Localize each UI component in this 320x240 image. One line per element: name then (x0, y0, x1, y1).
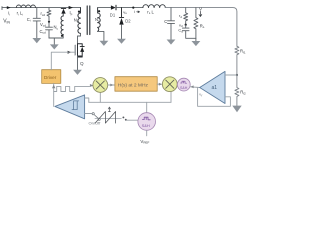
multiplier M1 (93, 78, 108, 93)
comparator top input wire (85, 98, 89, 102)
wire bottom damping net (49, 35, 63, 39)
svg-text:C: C (164, 19, 167, 24)
winding Ns (98, 8, 101, 32)
svg-text:Cd: Cd (178, 28, 183, 34)
polarity dot Np (78, 11, 80, 13)
comparator U2 (55, 95, 85, 119)
capacitor Cd (182, 25, 196, 38)
wire H to mult2 (157, 83, 162, 85)
svg-text:Ii: Ii (8, 11, 10, 17)
svg-text:RL: RL (200, 23, 205, 29)
capacitor C (168, 8, 175, 40)
capacitor Ci (33, 8, 40, 39)
multiplier M2 (162, 77, 177, 92)
sawtooth waveform (95, 118, 121, 120)
capacitor Ccd (46, 22, 53, 38)
wire D1 to L (116, 7, 143, 9)
sample-hold S&H1 (177, 78, 190, 91)
svg-text:Vcd: Vcd (40, 22, 46, 28)
svg-text:S&H: S&H (142, 123, 150, 128)
inductor L output (143, 5, 165, 8)
diode D1 (111, 5, 116, 9)
switch On/Off (92, 113, 94, 115)
wire output rail (165, 8, 237, 47)
resistor Rf2 (235, 75, 239, 106)
svg-text:ri Li: ri Li (17, 11, 24, 17)
svg-text:Ccd: Ccd (40, 29, 47, 35)
block H(s) (115, 77, 157, 92)
ground G3 (73, 70, 82, 75)
svg-text:S&H: S&H (180, 86, 188, 90)
polarity dot Nc (61, 35, 63, 37)
wire secondary top (98, 7, 111, 9)
wire mult1 to H (108, 84, 115, 86)
sample-hold S&H2 (138, 113, 156, 131)
stub mult2 (170, 92, 172, 103)
polarity dot Ns (98, 10, 100, 12)
arrow into driver (52, 85, 55, 89)
svg-text:On/Off: On/Off (89, 121, 102, 126)
wire S&H2 to Vref (146, 130, 148, 136)
junction dot vd (185, 24, 187, 26)
svg-text:a1: a1 (212, 85, 218, 91)
wire comparator to driver (53, 83, 55, 106)
svg-text:Ns: Ns (95, 17, 100, 23)
op-amp a1 (200, 71, 225, 103)
resistor RL (194, 8, 198, 42)
svg-text:Driver: Driver (44, 75, 57, 80)
ground G6 (167, 40, 176, 45)
arrowhead into mult1 (90, 84, 93, 87)
wire driver to gate (51, 45, 75, 69)
diode Dc (61, 7, 66, 9)
diode D2 (119, 8, 123, 18)
body diode (80, 46, 84, 48)
ground G5 (117, 39, 126, 44)
winding Np (78, 8, 81, 34)
core (87, 6, 90, 35)
svg-text:rL L: rL L (147, 9, 154, 15)
inductor Li (16, 5, 35, 8)
resistor Rf1 (235, 46, 239, 75)
current arrow Ii (7, 6, 11, 9)
contact dots (122, 116, 124, 118)
svg-text:H(s) at 2 MHz: H(s) at 2 MHz (118, 82, 149, 88)
winding Nc (61, 16, 63, 35)
svg-text:Rf1: Rf1 (240, 49, 246, 55)
wire Ns return (98, 31, 104, 41)
ground G8 (232, 106, 241, 113)
svg-text:i: i (134, 9, 135, 14)
comparator bottom input wire (85, 113, 92, 115)
wire input rail (2, 7, 81, 9)
feedback loop wire (198, 88, 231, 107)
opamp top input wire (225, 74, 237, 76)
resistor rcd (47, 8, 51, 22)
bus wire (89, 101, 171, 103)
svg-text:VREF: VREF (140, 139, 149, 145)
node dot i (132, 7, 134, 9)
svg-text:Ci: Ci (27, 17, 31, 23)
svg-text:Rf2: Rf2 (240, 90, 246, 96)
wire divider to opamp (226, 74, 237, 76)
svg-text:Nc: Nc (54, 25, 59, 31)
junction dot feedback (236, 74, 238, 76)
ground G1 (32, 38, 41, 43)
svg-text:rcd: rcd (41, 11, 46, 17)
svg-text:D1: D1 (110, 12, 116, 17)
wire square wave to multiplier (54, 86, 93, 92)
stub S&H2 (146, 102, 148, 113)
stub mult1 (99, 93, 101, 103)
ground G2 (53, 38, 55, 45)
junction dot Vcd (48, 21, 50, 23)
transistor Q (75, 44, 82, 57)
wire opamp to S&H1 (190, 86, 200, 89)
block Driver (42, 70, 61, 84)
ground G7 (192, 41, 201, 46)
svg-text:vs: vs (123, 9, 127, 15)
current arrow Ip (69, 6, 73, 9)
svg-text:D2: D2 (125, 19, 131, 24)
resistor rd (184, 8, 188, 24)
svg-text:rd: rd (179, 13, 182, 19)
wire into S&H2 (127, 119, 138, 121)
svg-text:Ip: Ip (70, 10, 73, 16)
input terminal tick (1, 7, 3, 10)
svg-text:Q: Q (80, 61, 84, 66)
svg-text:Np: Np (74, 18, 79, 24)
wire source to ground (77, 56, 79, 70)
sawtooth arrow (108, 107, 110, 112)
hysteresis glyph (72, 101, 79, 110)
drain wire (78, 33, 81, 43)
ground G4 (100, 41, 109, 46)
gate arrow (68, 51, 72, 54)
